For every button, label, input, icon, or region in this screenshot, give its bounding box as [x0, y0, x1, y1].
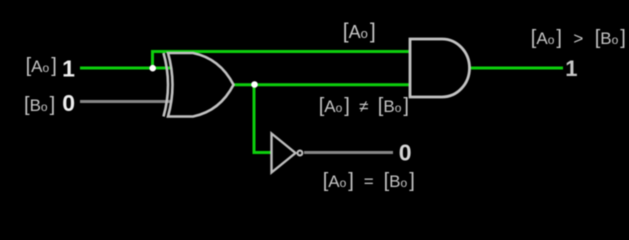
svg-text:1: 1 [62, 56, 75, 82]
svg-text:1: 1 [565, 56, 577, 81]
svg-text:[Bo]: [Bo] [24, 94, 55, 116]
svg-text:[Ao]: [Ao] [26, 55, 57, 77]
svg-text:0: 0 [62, 90, 75, 116]
svg-text:[Ao]>[Bo]: [Ao]>[Bo] [531, 27, 626, 49]
svg-text:[Ao]: [Ao] [343, 20, 376, 43]
svg-text:0: 0 [399, 140, 412, 166]
